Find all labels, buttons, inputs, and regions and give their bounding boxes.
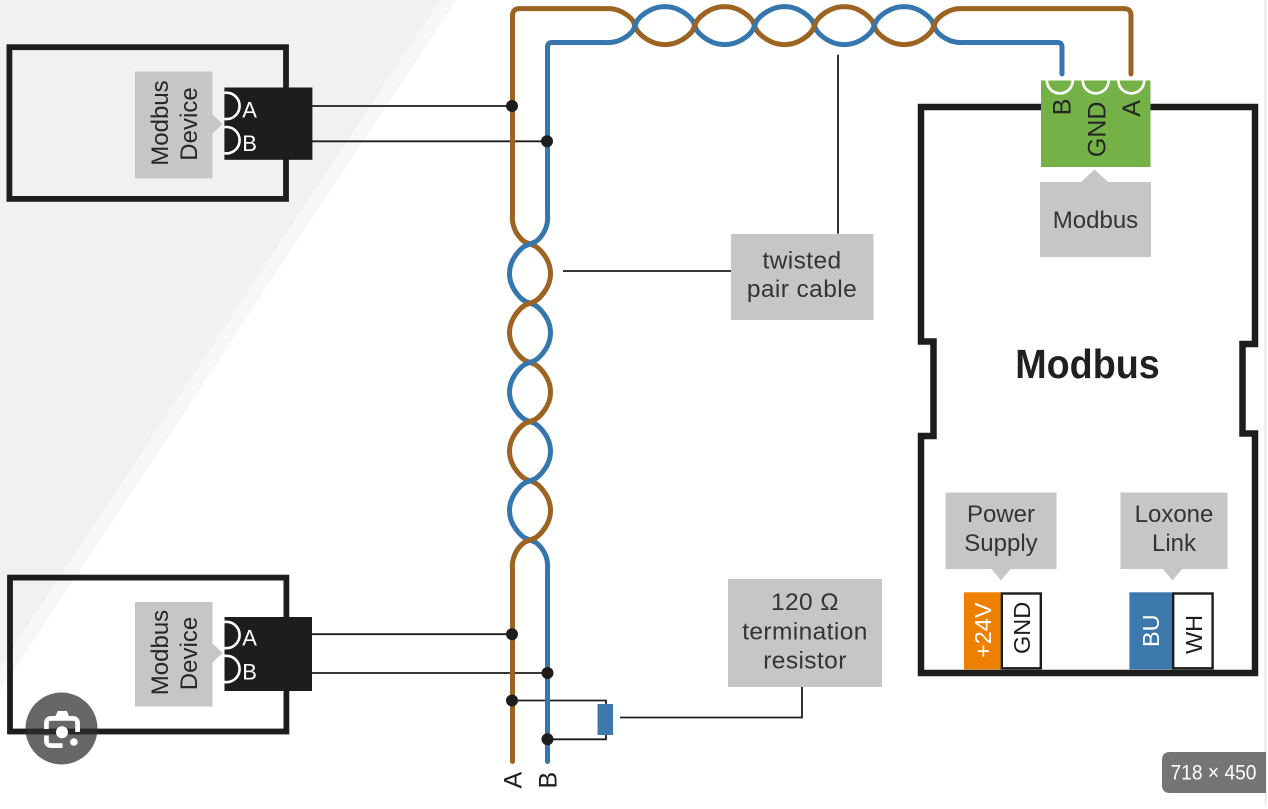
- terminal notch GND: [1083, 81, 1109, 94]
- svg-text:Power: Power: [967, 501, 1035, 528]
- termination resistor label: [728, 579, 882, 687]
- wire blue B: [510, 7, 1063, 762]
- twisted pair cable label: [731, 234, 874, 320]
- wire device1 A: [312, 105, 512, 107]
- loxone link label: [1121, 493, 1228, 581]
- modbus device 1 box: [9, 47, 286, 199]
- modbus port label: [1040, 170, 1151, 258]
- connector 1 terminal circle B: [213, 127, 239, 153]
- modbus device 2 box: [10, 578, 286, 732]
- wire resistor top: [512, 701, 606, 705]
- svg-text:B: B: [242, 660, 257, 685]
- junction dot A1: [506, 100, 518, 112]
- background wedge: [0, 0, 456, 804]
- wire brown A: [510, 7, 1132, 762]
- svg-text:GND: GND: [1009, 602, 1035, 654]
- svg-text:BU: BU: [1138, 614, 1164, 647]
- junction dot A2: [506, 628, 518, 640]
- svg-text:GND: GND: [1084, 102, 1112, 158]
- svg-text:WH: WH: [1181, 615, 1207, 654]
- modbus device 1 label: [135, 72, 223, 179]
- google lens button circle: [26, 693, 98, 765]
- connector 2 terminal circle A: [213, 622, 239, 648]
- wire brown overlaps: [515, 11, 948, 553]
- connector 1 terminal circle A: [213, 93, 239, 119]
- modbus device 2 label: [135, 602, 223, 707]
- callout line twisted pair vertical: [837, 55, 839, 234]
- termination resistor body: [598, 704, 614, 735]
- svg-text:A: A: [242, 626, 257, 651]
- svg-text:Modbus: Modbus: [1053, 207, 1138, 234]
- svg-text:termination: termination: [742, 619, 868, 646]
- junction dot A3: [506, 695, 518, 707]
- svg-text:120 Ω: 120 Ω: [771, 589, 839, 616]
- junction dot B3: [542, 733, 554, 745]
- svg-text:Link: Link: [1152, 530, 1197, 557]
- modbus device 2 connector: [225, 617, 313, 691]
- image dimension chip: [1162, 752, 1266, 793]
- svg-text:B: B: [535, 772, 563, 789]
- svg-text:A: A: [242, 98, 257, 123]
- +24V terminal: [964, 592, 1001, 669]
- svg-text:Modbus: Modbus: [147, 610, 174, 695]
- GND terminal: [1002, 594, 1041, 669]
- svg-text:Device: Device: [176, 87, 203, 160]
- WH terminal: [1173, 594, 1212, 669]
- svg-text:twisted: twisted: [762, 248, 841, 275]
- wire resistor bottom: [548, 735, 607, 739]
- svg-text:A: A: [500, 772, 528, 789]
- svg-text:+24V: +24V: [970, 602, 996, 658]
- svg-text:Loxone: Loxone: [1135, 501, 1214, 528]
- svg-text:B: B: [1049, 99, 1077, 116]
- google lens icon bump: [55, 711, 71, 719]
- terminal notch B: [1047, 81, 1073, 94]
- power supply label: [946, 493, 1057, 581]
- connector 2 terminal circle B: [213, 656, 239, 682]
- junction dot B1: [541, 135, 553, 147]
- svg-text:718 × 450: 718 × 450: [1171, 762, 1257, 785]
- callout line twisted pair horizontal: [563, 270, 731, 272]
- google lens icon dot: [70, 738, 78, 746]
- green modbus terminal block: [1041, 81, 1151, 168]
- svg-text:Modbus: Modbus: [1015, 341, 1160, 387]
- wire device1 B: [312, 140, 547, 142]
- wire device2 A: [312, 633, 512, 635]
- callout line termination resistor: [620, 687, 802, 718]
- svg-text:Device: Device: [176, 617, 203, 690]
- svg-text:Supply: Supply: [964, 530, 1037, 557]
- wire device2 B: [312, 672, 548, 674]
- BU terminal: [1129, 592, 1172, 669]
- google lens icon: [46, 718, 77, 745]
- background wedge light band: [0, 0, 456, 804]
- panel divider line right: [1265, 0, 1267, 804]
- right device outline: [921, 107, 1255, 673]
- terminal notch A: [1118, 81, 1144, 94]
- svg-text:resistor: resistor: [763, 648, 847, 675]
- svg-text:pair cable: pair cable: [747, 276, 857, 303]
- modbus device 1 connector: [224, 88, 312, 160]
- svg-text:A: A: [1118, 100, 1146, 117]
- svg-text:B: B: [242, 131, 257, 156]
- junction dot B2: [542, 667, 554, 679]
- google lens icon center circle: [56, 726, 68, 738]
- svg-text:Modbus: Modbus: [147, 80, 174, 165]
